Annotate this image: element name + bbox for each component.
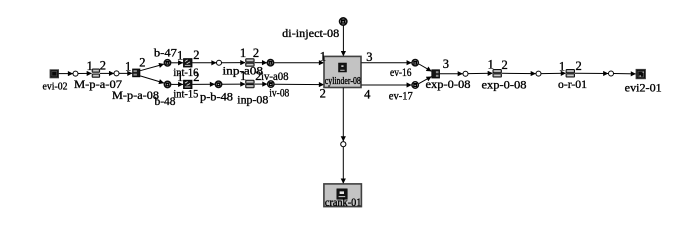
svg-text:2: 2 xyxy=(193,48,199,62)
node evi2-01 (sink square) xyxy=(636,69,645,78)
wire cylinder bottom to junction j7 xyxy=(342,88,344,142)
wire b-48 to int-15 xyxy=(171,83,183,85)
svg-text:iv-a08: iv-a08 xyxy=(261,69,289,83)
node j6 (open circle) xyxy=(609,71,614,76)
svg-text:inp-08: inp-08 xyxy=(237,93,268,107)
wire evi-02 to junction j1 xyxy=(59,73,73,75)
wire b-47 to int-16 xyxy=(171,62,183,64)
svg-text:2: 2 xyxy=(193,70,199,84)
node inp-a08 (striped icon) xyxy=(246,59,254,66)
svg-text:o-r-01: o-r-01 xyxy=(558,77,587,91)
node j1 (open circle) xyxy=(73,71,78,76)
node di-inject-08 (circle-dot) xyxy=(340,18,347,25)
svg-text:di-inject-08: di-inject-08 xyxy=(282,26,339,40)
wire inp-08 to iv-08 xyxy=(254,83,267,85)
wire ev-16 to exp-0-08 node xyxy=(419,64,432,71)
wire j2 to M-p-a-08 xyxy=(119,72,132,74)
wire o-r-01 to junction j6 xyxy=(575,72,608,74)
node j7 (open circle) xyxy=(341,142,346,147)
svg-text:1: 1 xyxy=(177,70,183,84)
svg-text:2: 2 xyxy=(320,86,326,100)
svg-text:4: 4 xyxy=(364,88,371,102)
svg-text:1: 1 xyxy=(125,60,131,74)
wire M-p-a-07 to junction j2 xyxy=(100,72,114,74)
svg-text:1: 1 xyxy=(488,58,494,72)
node j2 (open circle) xyxy=(114,71,119,76)
node int-16 (dark pic icon) xyxy=(184,59,193,67)
svg-text:exp-0-08: exp-0-08 xyxy=(482,78,527,92)
svg-text:2: 2 xyxy=(139,56,145,70)
svg-text:2: 2 xyxy=(502,58,508,72)
wire j1 to M-p-a-07 xyxy=(78,72,92,74)
svg-text:1: 1 xyxy=(177,49,183,63)
node int-15 (dark pic icon) xyxy=(184,80,193,88)
component crank-01 (gray box) xyxy=(324,184,362,209)
node inp-08 (striped icon) xyxy=(246,80,254,88)
svg-text:evi-02: evi-02 xyxy=(43,80,68,92)
svg-text:int-15: int-15 xyxy=(173,86,198,100)
wire j5 to o-r-01 xyxy=(541,72,566,74)
wire j6 to evi2-01 xyxy=(614,73,636,75)
node o-r-01 (striped icon) xyxy=(566,70,574,78)
wire p-b-48 to inp-08 xyxy=(222,83,245,85)
svg-text:3: 3 xyxy=(366,50,372,64)
component cylinder-08 (gray box) xyxy=(324,56,361,87)
svg-text:1: 1 xyxy=(240,69,246,83)
wire exp-0-08 icon to junction j5 xyxy=(502,72,536,74)
svg-text:iv-08: iv-08 xyxy=(269,86,289,100)
svg-text:1: 1 xyxy=(320,49,326,63)
node evi-02 (source square) xyxy=(50,70,58,78)
wire exp-0-08 node to junction j4 xyxy=(440,73,463,75)
node b-47 (circle-dot) xyxy=(164,60,170,66)
wire cylinder port 4 to ev-17 xyxy=(361,84,411,86)
svg-text:evi2-01: evi2-01 xyxy=(625,80,662,94)
node M-p-a-08 (dark split icon) xyxy=(133,69,140,77)
svg-text:p-b-48: p-b-48 xyxy=(200,90,233,104)
svg-text:cylinder-08: cylinder-08 xyxy=(325,76,361,87)
svg-text:M-p-a-08: M-p-a-08 xyxy=(112,88,159,102)
svg-text:ev-16: ev-16 xyxy=(390,65,412,79)
node j3 (open circle) xyxy=(217,60,222,65)
wire inp-a08 to iv-a08 xyxy=(254,62,267,64)
wire j3 to inp-a08 xyxy=(222,62,246,64)
wire M-p-a-08 to b-47 xyxy=(140,64,164,71)
svg-text:2: 2 xyxy=(100,58,106,72)
wire j4 to exp-0-08 striped icon xyxy=(468,72,493,74)
wire di-inject-08 to cylinder top xyxy=(342,26,344,57)
node j5 (open circle) xyxy=(536,71,541,76)
wire int-15 to p-b-48 xyxy=(192,83,215,85)
node exp-0-08 second (striped icon) xyxy=(493,70,501,78)
node exp-0-08 (dark split icon) xyxy=(432,70,440,78)
wire M-p-a-08 to b-48 xyxy=(140,76,164,83)
node iv-a08 (circle-dot) xyxy=(267,60,273,66)
node p-b-48 (circle-dot) xyxy=(215,81,221,87)
wire j7 to crank-01 xyxy=(342,147,344,184)
svg-text:2: 2 xyxy=(253,46,259,60)
svg-text:1: 1 xyxy=(559,60,565,74)
svg-text:b-47: b-47 xyxy=(154,46,177,60)
svg-text:3: 3 xyxy=(443,57,449,71)
svg-text:2: 2 xyxy=(576,59,582,73)
node j4 (open circle) xyxy=(463,71,468,76)
svg-text:ev-17: ev-17 xyxy=(389,89,413,103)
node b-48 (circle-dot) xyxy=(164,81,170,87)
wire ev-17 to exp-0-08 node xyxy=(419,77,432,84)
wire int-16 to junction j3 xyxy=(192,62,216,64)
wire iv-a08 to cylinder port 1 xyxy=(274,62,324,64)
svg-text:1: 1 xyxy=(87,59,93,73)
svg-text:crank-01: crank-01 xyxy=(325,197,362,209)
node iv-08 (circle-dot) xyxy=(268,81,274,87)
node ev-17 (circle-dot) xyxy=(412,82,418,88)
svg-text:2: 2 xyxy=(255,69,261,83)
wire iv-08 to cylinder port 2 xyxy=(275,83,324,85)
node ev-16 (circle-dot) xyxy=(412,60,418,66)
wire cylinder port 3 to ev-16 xyxy=(361,62,411,64)
svg-text:exp-0-08: exp-0-08 xyxy=(426,77,471,91)
svg-text:b-48: b-48 xyxy=(155,94,176,108)
node M-p-a-07 (striped icon) xyxy=(92,69,99,77)
svg-text:1: 1 xyxy=(240,46,246,60)
